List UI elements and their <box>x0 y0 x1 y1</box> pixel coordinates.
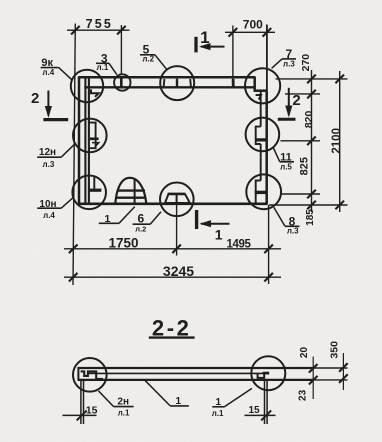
bottom dimension line 1750/1495 <box>64 248 281 250</box>
leader 1 to lifting loop <box>99 222 119 224</box>
keyway jog inside detail 8 <box>256 181 261 204</box>
section slab left end <box>77 367 79 381</box>
detail circle 7 top-right corner <box>245 68 280 103</box>
joint step inside detail 9к <box>91 89 99 96</box>
detail circle 6 bottom edge <box>160 183 194 217</box>
section marker 2 right <box>278 118 296 121</box>
extension line 700 left <box>232 26 234 80</box>
leader 10н <box>37 207 61 209</box>
detail circle 8 bottom-right <box>246 174 281 209</box>
extension line left (shared 755 / 3245) <box>73 24 75 286</box>
detail circle 11 right edge <box>246 118 280 152</box>
panel top inner edge line <box>84 86 254 88</box>
corner notch horizontal (detail 7) <box>254 89 267 92</box>
lifting loop chord 1 <box>118 189 145 191</box>
lifting loop vertical <box>134 179 136 203</box>
leader 3 <box>96 62 109 64</box>
extension line y=94 <box>285 93 320 95</box>
extension line y=141 <box>281 140 321 142</box>
leader 7 <box>282 58 296 60</box>
leader 5 <box>140 54 155 56</box>
detail circle 12н left edge <box>73 119 107 153</box>
section extension to right top <box>313 367 348 369</box>
weld bar inside detail 11 <box>256 138 268 141</box>
section extension to right bottom <box>313 379 348 381</box>
lifting loop arch <box>115 178 146 204</box>
right dimension chain line <box>311 70 313 212</box>
section right dim line 20/23 <box>312 357 314 400</box>
bottom dimension line 3245 <box>64 276 281 278</box>
extension line at detail 3 <box>120 25 122 75</box>
section slab mid line <box>88 372 267 374</box>
step tail inside detail 12н <box>92 143 99 147</box>
weld dash inside right section circle <box>263 372 270 375</box>
section dim line 350 <box>342 353 344 390</box>
section marker 1 top <box>194 37 197 53</box>
dimension 755 line <box>67 29 130 31</box>
weld bar inside detail 8 <box>255 191 268 194</box>
section slab top line <box>78 367 313 369</box>
section detail circle left (2н) <box>73 358 107 392</box>
keyway jog inside detail 11 <box>256 127 261 144</box>
joint bracket inside detail 12н <box>89 123 96 149</box>
detail circle 5 top edge <box>160 66 194 100</box>
dimension 15 left <box>63 414 97 416</box>
lifting loop chord 2 <box>116 196 146 198</box>
panel top outer edge line <box>79 76 255 79</box>
extension line below trapezoid <box>176 204 178 256</box>
panel left inner double line b <box>88 78 90 204</box>
leader 1 mid section <box>145 380 170 406</box>
section slab bottom line <box>78 379 313 381</box>
section marker 2 left <box>43 118 68 121</box>
extension lines below left circle <box>80 381 82 424</box>
leader 2н <box>114 406 134 408</box>
extension lines below right circle <box>264 381 266 424</box>
section detail circle right (1) <box>251 356 285 390</box>
leader 1 л.1 right section <box>212 406 224 408</box>
panel left inner double line a <box>84 78 86 204</box>
panel right outer edge line <box>265 90 268 204</box>
leader 9к <box>41 67 59 69</box>
extension line 700 right / panel edge upper <box>266 25 268 91</box>
dimension 2100 line <box>339 71 341 212</box>
detail circle 9к top-left <box>71 70 103 102</box>
panel left outer edge line <box>78 76 81 204</box>
joint step inside right section circle <box>258 373 265 378</box>
terminal bar of 700 extension on top edge <box>232 79 235 88</box>
vertical mark inside detail 10н <box>93 177 95 189</box>
bar mark inside detail 3 <box>120 77 123 87</box>
lifting key trapezoid inside detail 6 <box>164 202 190 204</box>
extension line y=79 top right <box>276 78 348 80</box>
weld bar inside detail 12н <box>90 137 99 140</box>
joint step inside left section circle <box>81 371 103 379</box>
section marker 1 bottom <box>195 210 198 229</box>
dimension 15 right <box>245 414 276 416</box>
leader 12н <box>37 156 61 158</box>
section title underline <box>149 336 195 338</box>
extension line y=205 bottom right <box>269 204 348 206</box>
panel right inner edge line middle <box>260 144 262 181</box>
panel right inner edge line upper <box>260 91 262 127</box>
detail circle 3 small on top edge <box>114 74 130 90</box>
bar marks inside detail 5 <box>163 79 166 87</box>
hook mark inside detail 7 <box>256 95 261 100</box>
corner notch vertical (detail 7) <box>253 76 256 91</box>
weld bar inside detail 10н <box>89 189 102 192</box>
panel bottom edge line <box>79 203 267 206</box>
leader 6 <box>133 223 151 225</box>
leader 11 <box>280 161 294 163</box>
dimension 700 line <box>225 31 275 33</box>
leader 8 <box>285 225 300 227</box>
extension line bottom right <box>268 205 270 284</box>
detail circle 10н bottom-left <box>72 176 106 210</box>
extension line y=194 <box>282 193 321 195</box>
